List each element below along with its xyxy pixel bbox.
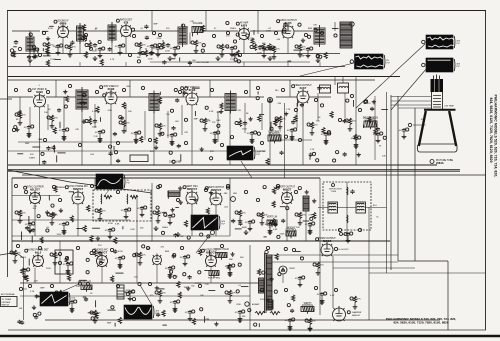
part-number bubble [110,248,113,251]
part-number bubble [132,290,135,293]
ground [308,230,313,235]
part-number bubble [50,284,53,287]
resistor [316,262,319,268]
svg-text:.05: .05 [294,278,298,280]
ground [308,326,313,331]
svg-text:2.2K: 2.2K [94,136,99,138]
title right margin (rotated) [489,95,497,178]
svg-text:47K: 47K [313,25,317,27]
resistor [18,210,21,216]
capacitor [93,43,97,48]
ground [28,228,33,233]
wire [391,96,432,98]
svg-text:.05: .05 [316,294,320,296]
part-number bubble [358,228,361,231]
waveform photo W2 [426,35,461,49]
wire [141,211,143,213]
wire [311,129,313,131]
part-number bubble [14,88,17,91]
wire [159,96,186,98]
part-number bubble [334,247,337,250]
leader to waveform photo W1 [300,63,354,76]
svg-text:VOLUME: VOLUME [193,23,203,25]
part-number bubble [158,33,161,36]
resistor [122,120,125,126]
svg-text:6SN7GT: 6SN7GT [206,250,217,254]
wire [189,315,191,317]
svg-text:1B3GT: 1B3GT [289,268,296,270]
capacitor [230,46,234,51]
part-number bubble [225,291,228,294]
capacitor [306,47,310,52]
part-number bubble [154,44,157,47]
wire [249,225,251,227]
svg-text:2.2K: 2.2K [34,280,39,282]
part-number bubble [332,184,335,187]
waveform photo W7 [40,292,76,306]
svg-text:68K: 68K [233,193,237,195]
control horiz freq control [209,271,219,278]
ground [128,296,133,301]
ground [62,230,67,235]
svg-text:.002: .002 [224,207,229,209]
svg-text:P-P: P-P [256,154,260,156]
wire [309,325,311,327]
part-number bubble [176,198,179,201]
ground [56,50,61,55]
svg-text:.05: .05 [246,133,250,135]
ground [140,212,145,217]
svg-text:6K6GT: 6K6GT [283,187,292,191]
vertical bus x398 [397,96,399,261]
wire [391,100,432,102]
wire [0,98,12,100]
svg-text:10K: 10K [19,308,23,310]
leader to waveform photo W5 [104,189,110,196]
wire [89,40,91,42]
resistor [260,212,263,218]
wire [257,11,259,35]
part-number bubble [294,128,297,131]
bottom printed rule [0,335,500,337]
control height control [285,227,297,238]
ground [183,261,188,266]
ground [262,53,267,58]
svg-text:.05: .05 [302,49,306,51]
svg-text:6.3V: 6.3V [330,295,335,297]
wire [18,141,133,143]
ground [320,300,325,305]
part-number bubble [84,33,87,36]
capacitor [70,300,74,305]
part-number bubble [135,253,138,256]
part-number bubble [66,128,69,131]
wire [59,297,61,299]
wire [129,295,131,297]
T10 vert output transformer [303,196,309,211]
wire [204,125,206,127]
svg-text:10K: 10K [140,227,144,229]
svg-text:6.8K: 6.8K [115,224,120,226]
ground [188,316,193,321]
wire [276,96,297,98]
wire [29,62,31,67]
wire [317,93,319,120]
phase det box [55,250,73,274]
part-number bubble [320,31,323,34]
wire [99,135,101,137]
svg-text:VERT LIN: VERT LIN [267,216,278,218]
svg-text:47K: 47K [72,47,76,49]
wire [84,30,120,32]
part-number bubble [50,253,53,256]
wire [344,93,346,118]
part-number bubble [58,252,61,255]
part-number bubble [380,132,383,135]
wire [319,62,321,67]
part-number bubble [43,138,46,141]
resistor [138,42,141,48]
part-number bubble [90,251,93,254]
part-number bubble [47,213,50,216]
part-number bubble [174,133,177,136]
waveform photo W6 [191,215,226,230]
svg-text:824, 5820, 6120, 7120, 7820, 8: 824, 5820, 6120, 7120, 7820, 8120, 8820 [393,321,448,325]
svg-text:470: 470 [226,36,230,38]
wire [62,38,64,54]
wire [209,80,211,97]
resistor [50,115,53,121]
svg-text:6SN7GT: 6SN7GT [211,188,222,192]
part-number bubble [38,53,41,56]
svg-text:5V4G: 5V4G [260,299,266,301]
wire [55,80,57,97]
wire [67,267,69,269]
filament winding [268,300,273,309]
svg-text:10K: 10K [76,286,80,288]
part-number bubble [347,311,350,314]
peaking coil box 2 [338,83,349,93]
svg-text:P-P: P-P [126,183,130,185]
part-number bubble [116,284,119,287]
svg-text:6AQ5: 6AQ5 [285,21,292,25]
part-number bubble [90,311,93,314]
ground [248,226,253,231]
svg-text:27K: 27K [308,215,312,217]
capacitor [346,232,350,237]
ground [93,56,98,61]
wire [355,141,357,143]
wire [132,30,186,32]
part-number bubble [177,300,180,303]
wire [8,170,460,172]
wire [299,281,301,283]
wire [151,49,153,51]
part-number bubble [10,251,13,254]
part-number bubble [408,123,411,126]
capacitor [376,132,380,137]
part-number bubble [119,121,122,124]
svg-text:2.2K: 2.2K [205,284,210,286]
part-number bubble [180,246,183,249]
svg-text:.05: .05 [62,264,66,266]
wire [205,11,207,32]
svg-text:33K: 33K [147,248,151,250]
ground [268,56,273,61]
part-number bubble [350,232,353,235]
part-number bubble [232,264,235,267]
wire [29,51,31,58]
wire [8,169,460,171]
svg-text:220K: 220K [46,268,51,270]
wire [125,213,127,215]
ground [58,299,63,304]
wire [296,103,298,128]
part-number bubble [78,282,81,285]
wire damper feed [332,256,334,308]
ground [168,272,173,277]
ground [98,53,103,58]
ground [320,298,325,303]
deflection yoke dashed box [323,182,371,230]
wire [79,41,81,54]
wire [261,103,263,130]
part-number bubble [210,88,213,91]
part-number bubble [260,288,263,291]
part-number bubble [58,198,61,201]
capacitor [134,131,138,136]
part-number bubble [302,276,305,279]
ground [28,58,33,63]
wire [210,267,212,284]
wire [119,178,121,190]
svg-text:8MF: 8MF [308,28,313,30]
wire [342,77,344,84]
capacitor [150,44,154,49]
vertical bus x448 [447,261,449,330]
vertical wire x137 [136,195,138,241]
svg-text:220K: 220K [257,53,262,55]
svg-text:2084A: 2084A [436,161,444,165]
yoke horizontal coil left [328,202,338,213]
svg-text:220K: 220K [157,38,162,40]
part-number bubble [90,184,93,187]
yoke vertical coil bottom [346,215,349,223]
speaker [350,22,354,26]
wire [88,96,105,98]
IF transformer T7 2nd IF can [149,91,159,114]
svg-text:.05: .05 [130,133,134,135]
svg-text:6AL5: 6AL5 [35,250,42,254]
ground [13,259,18,264]
ground [308,228,313,233]
svg-text:.05: .05 [209,133,213,135]
svg-text:1MEG: 1MEG [55,47,61,49]
part-number bubble [141,51,144,54]
part-number bubble [256,198,259,201]
svg-text:.002: .002 [134,277,139,279]
svg-text:6AT6: 6AT6 [241,23,248,27]
ground [62,134,67,139]
part-number bubble [211,231,215,235]
wire [191,204,193,236]
ground [288,324,293,329]
svg-text:470K: 470K [108,223,113,225]
part-number bubble [27,268,30,271]
part-number bubble [19,287,22,290]
svg-text:47K: 47K [184,132,188,134]
tube V6 [100,86,120,104]
tube V18 [153,254,162,266]
svg-text:.05: .05 [58,130,62,132]
part-number bubble [260,141,263,144]
svg-text:SWITCH: SWITCH [2,305,10,307]
svg-text:47K: 47K [22,115,26,117]
ground [134,137,139,142]
vertical bus x230 [229,178,231,236]
wire [109,233,111,235]
picture tube funnel left side [419,111,426,146]
capacitor [170,133,174,138]
wire [8,150,265,152]
part-number bubble [138,131,141,134]
part-number bubble [141,86,144,89]
wire [159,297,161,299]
ground [154,226,159,231]
part-number bubble [177,46,180,49]
svg-text:47K: 47K [276,49,280,51]
capacitor [118,44,122,49]
part-number bubble [38,246,41,249]
svg-text:ANT TERMINAL: ANT TERMINAL [1,293,15,296]
tube V10 [65,185,88,204]
capacitor [27,125,31,130]
waveform photo W1 [355,54,391,69]
ground [50,221,55,226]
wire [46,96,76,98]
ground [98,217,103,222]
part-number bubble [350,60,353,63]
part-number bubble [102,47,105,50]
svg-text:47K: 47K [78,281,82,283]
tube V15 [25,249,49,267]
svg-text:47K: 47K [314,125,318,127]
resistor in trap [104,195,112,198]
ground [250,139,255,144]
wire [289,80,291,97]
tube V12 [205,187,225,205]
IF transformer T2 sound IF [77,23,84,44]
bottom border line [8,329,486,331]
capacitor [108,228,112,233]
ground [93,319,98,324]
svg-text:6CB6: 6CB6 [36,90,43,94]
svg-text:47K: 47K [142,255,146,257]
part-number bubble [422,63,425,66]
resistor [272,46,275,52]
wire [229,269,231,271]
capacitor [173,300,177,305]
ground [290,134,295,139]
svg-text:6.8K: 6.8K [273,229,278,231]
trap coil L1 [100,194,103,204]
wire [94,178,96,190]
wire [51,219,53,221]
svg-text:470K: 470K [118,251,123,253]
horizontal bus y273 [369,272,486,274]
ground [28,228,33,233]
svg-text:47K: 47K [352,121,356,123]
svg-text:47: 47 [214,28,217,30]
part-number bubble [122,88,125,91]
wire [366,207,387,209]
wire [20,295,250,297]
capacitor [14,40,18,45]
part-number bubble [155,124,158,127]
part-number bubble [200,119,203,122]
part-number bubble [95,90,98,93]
part-number bubble [178,90,181,93]
svg-text:4.5MC: 4.5MC [260,151,267,153]
capacitor [320,292,324,297]
svg-text:8MF: 8MF [25,143,30,145]
IF transformer T11 discriminator transformer [178,24,187,47]
part-number bubble [220,284,223,287]
part-number bubble [276,184,279,187]
wire [305,211,307,241]
ground [18,121,23,126]
svg-text:10K: 10K [200,295,204,297]
wire [8,76,400,78]
ground [354,144,359,149]
part-number bubble [238,53,241,56]
ground [168,274,173,279]
vertical wire x386 [386,92,388,273]
ground [268,230,273,235]
wire [29,31,31,37]
wire [94,104,96,128]
svg-text:8MF: 8MF [194,118,199,120]
ground [353,305,358,310]
wire [239,118,241,120]
control horiz hold control [214,249,229,260]
part-number bubble [269,47,272,50]
waveform photo W4 [227,146,261,160]
resistor [156,210,159,216]
svg-text:10K: 10K [382,155,386,157]
wire [157,51,159,53]
svg-text:1MEG: 1MEG [20,257,26,259]
svg-text:OSC IN LINE: OSC IN LINE [196,62,210,64]
ground [66,268,71,273]
wire [19,119,21,121]
ground [298,221,303,226]
capacitor [156,46,160,51]
ground [66,270,71,275]
wire [29,107,31,125]
control contrast control [268,130,281,143]
svg-text:.05: .05 [169,48,173,50]
svg-text:.05: .05 [114,258,118,260]
resistor [53,252,56,258]
svg-text:220: 220 [166,28,170,30]
control vert lin control [267,216,278,227]
svg-text:.05: .05 [23,127,27,129]
wire [71,305,73,307]
wire [20,282,265,284]
ground [68,53,73,58]
svg-text:560: 560 [191,286,195,288]
